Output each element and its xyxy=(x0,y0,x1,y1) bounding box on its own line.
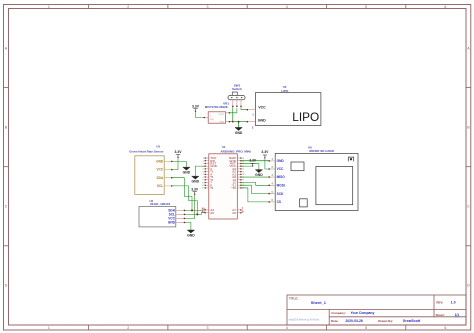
svg-text:3.3V: 3.3V xyxy=(192,104,200,108)
svg-text:GND: GND xyxy=(258,119,266,123)
svg-text:3.3V: 3.3V xyxy=(175,150,183,154)
svg-text:VIN: VIN xyxy=(210,119,214,121)
svg-text:GND: GND xyxy=(220,122,225,124)
svg-text:18: 18 xyxy=(242,174,244,176)
svg-text:3.3V: 3.3V xyxy=(249,158,257,162)
svg-text:3.3V: 3.3V xyxy=(191,187,199,191)
svg-text:SDA: SDA xyxy=(156,176,163,180)
svg-text:6: 6 xyxy=(444,326,446,330)
svg-text:A5: A5 xyxy=(210,211,214,215)
svg-text:VCC: VCC xyxy=(277,167,284,171)
svg-text:GND: GND xyxy=(255,173,263,177)
svg-text:*10: *10 xyxy=(231,186,236,190)
svg-text:7: 7 xyxy=(203,174,204,176)
svg-text:Sheet:: Sheet: xyxy=(436,313,445,317)
svg-text:3: 3 xyxy=(207,326,209,330)
svg-text:GND: GND xyxy=(187,234,195,238)
svg-text:C: C xyxy=(467,205,470,209)
svg-text:11: 11 xyxy=(202,185,204,187)
svg-text:OLED_128x32: OLED_128x32 xyxy=(150,202,170,206)
svg-text:Grove Heart Rate Sensor: Grove Heart Rate Sensor xyxy=(129,149,164,153)
svg-text:1.0: 1.0 xyxy=(451,301,456,305)
svg-text:8: 8 xyxy=(203,177,204,179)
svg-text:9: 9 xyxy=(203,180,204,182)
svg-text:CS: CS xyxy=(277,200,281,204)
svg-text:GND: GND xyxy=(192,180,200,184)
svg-text:19: 19 xyxy=(242,171,244,173)
svg-text:A: A xyxy=(5,46,8,50)
svg-text:ARDUINO_PRO_MINI: ARDUINO_PRO_MINI xyxy=(221,149,251,153)
svg-text:5: 5 xyxy=(365,326,367,330)
svg-text:2: 2 xyxy=(127,5,129,9)
svg-text:VCC: VCC xyxy=(258,106,266,110)
svg-text:GND: GND xyxy=(277,159,285,163)
svg-text:6: 6 xyxy=(203,171,204,173)
svg-text:20: 20 xyxy=(242,169,244,171)
svg-text:REV:: REV: xyxy=(436,301,443,305)
svg-text:SCL: SCL xyxy=(157,184,163,188)
svg-text:GND: GND xyxy=(156,160,164,164)
svg-text:MOSI: MOSI xyxy=(277,184,285,188)
svg-text:1: 1 xyxy=(252,112,254,116)
svg-text:1: 1 xyxy=(48,5,50,9)
svg-text:2: 2 xyxy=(203,161,204,163)
svg-text:U1: U1 xyxy=(222,145,226,149)
svg-text:SCK: SCK xyxy=(277,192,284,196)
svg-text:MISO: MISO xyxy=(277,175,286,179)
svg-text:Sheet_1: Sheet_1 xyxy=(311,300,327,305)
svg-text:Switch: Switch xyxy=(232,87,242,91)
svg-text:1/1: 1/1 xyxy=(455,313,460,317)
svg-text:MCP1700-3302E: MCP1700-3302E xyxy=(205,105,228,109)
svg-text:12: 12 xyxy=(202,188,204,190)
svg-text:GreatScott: GreatScott xyxy=(403,319,421,323)
svg-text:24: 24 xyxy=(242,158,244,160)
svg-text:Your Company: Your Company xyxy=(351,311,375,315)
svg-text:2: 2 xyxy=(127,326,129,330)
svg-text:10: 10 xyxy=(202,182,204,184)
svg-text:VOUT: VOUT xyxy=(218,114,224,116)
svg-text:TITLE:: TITLE: xyxy=(289,297,298,301)
svg-text:D: D xyxy=(5,284,8,288)
svg-text:easyEDA Where.py All Kinds: easyEDA Where.py All Kinds xyxy=(289,318,320,321)
svg-text:GND: GND xyxy=(235,131,243,135)
svg-text:3: 3 xyxy=(203,163,204,165)
svg-text:3.3V: 3.3V xyxy=(261,150,269,154)
svg-text:*9: *9 xyxy=(210,186,213,190)
svg-text:Drawn By:: Drawn By: xyxy=(378,319,393,323)
svg-text:GND: GND xyxy=(168,221,176,225)
svg-text:GND: GND xyxy=(183,171,191,175)
svg-text:1: 1 xyxy=(210,116,211,118)
svg-text:16: 16 xyxy=(242,180,244,182)
svg-text:5: 5 xyxy=(203,169,204,171)
svg-text:1: 1 xyxy=(203,158,204,160)
svg-text:A6: A6 xyxy=(232,211,236,215)
svg-text:B: B xyxy=(242,210,244,213)
svg-text:B: B xyxy=(5,125,8,129)
svg-text:D: D xyxy=(467,284,470,288)
svg-text:2: 2 xyxy=(252,125,254,129)
svg-text:4: 4 xyxy=(286,326,288,330)
svg-text:6: 6 xyxy=(444,5,446,9)
svg-text:VCC: VCC xyxy=(156,168,163,172)
svg-text:B: B xyxy=(467,125,470,129)
svg-text:Company:: Company: xyxy=(331,311,346,315)
svg-text:U3: U3 xyxy=(156,144,160,148)
svg-text:LIPO: LIPO xyxy=(292,110,319,124)
svg-text:3: 3 xyxy=(207,5,209,9)
svg-text:C: C xyxy=(5,205,8,209)
svg-text:Date:: Date: xyxy=(331,319,339,323)
svg-text:A: A xyxy=(467,46,470,50)
svg-text:1: 1 xyxy=(48,326,50,330)
svg-text:5: 5 xyxy=(365,5,367,9)
svg-text:MICRO SD CARD: MICRO SD CARD xyxy=(309,149,334,153)
svg-text:2020-03-26: 2020-03-26 xyxy=(345,319,362,323)
svg-text:4: 4 xyxy=(286,5,288,9)
